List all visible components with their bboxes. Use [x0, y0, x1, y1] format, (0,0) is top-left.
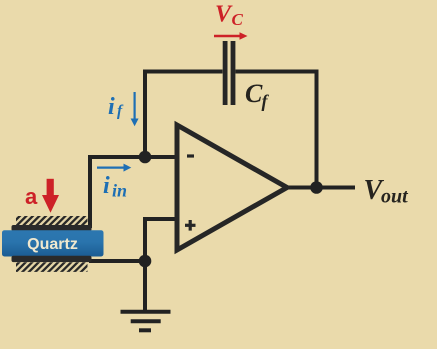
svg-text:i: i [103, 173, 110, 199]
wire sensor bottom horizontal [89, 259, 147, 263]
arrow a downward [42, 179, 59, 213]
wire sensor top vertical [88, 155, 92, 228]
wire non-inverting / ground vertical [143, 217, 147, 312]
ground symbol [121, 312, 171, 331]
label i_in [103, 173, 127, 201]
svg-text:i: i [108, 94, 115, 120]
wire top feedback right segment [236, 70, 319, 74]
hatched support top [16, 216, 88, 225]
wire output [286, 186, 355, 190]
label i_f [108, 94, 124, 120]
wire feedback right vertical [315, 70, 319, 188]
wire inverting input horizontal [88, 155, 177, 159]
capacitor C_f plates [223, 41, 236, 105]
wire top feedback left segment [143, 70, 223, 74]
label C_f [245, 79, 270, 111]
quartz body [2, 230, 104, 256]
svg-text:out: out [381, 186, 409, 208]
node at sensor bottom / ground [139, 255, 152, 268]
op-amp U1 triangle [177, 125, 287, 250]
arrow i_f downward [131, 92, 139, 126]
svg-text:a: a [25, 184, 38, 209]
node at output [310, 181, 323, 194]
op-amp plus sign [185, 220, 196, 231]
electrode top [12, 225, 92, 231]
svg-text:V: V [215, 2, 233, 28]
wire non-inverting horizontal [145, 217, 177, 221]
label V_C [215, 2, 244, 29]
svg-text:C: C [232, 10, 244, 29]
wire feedback left vertical [143, 70, 147, 158]
svg-text:C: C [245, 79, 263, 108]
svg-text:Quartz: Quartz [27, 236, 78, 253]
op-amp minus sign [187, 154, 194, 157]
arrow i_in rightward [97, 164, 131, 172]
arrow V_C rightward [214, 32, 248, 40]
node at inverting input [139, 151, 152, 164]
svg-text:in: in [112, 181, 127, 201]
electrode bottom [12, 256, 92, 262]
label V_out [364, 175, 410, 208]
hatched support bottom [16, 262, 88, 272]
